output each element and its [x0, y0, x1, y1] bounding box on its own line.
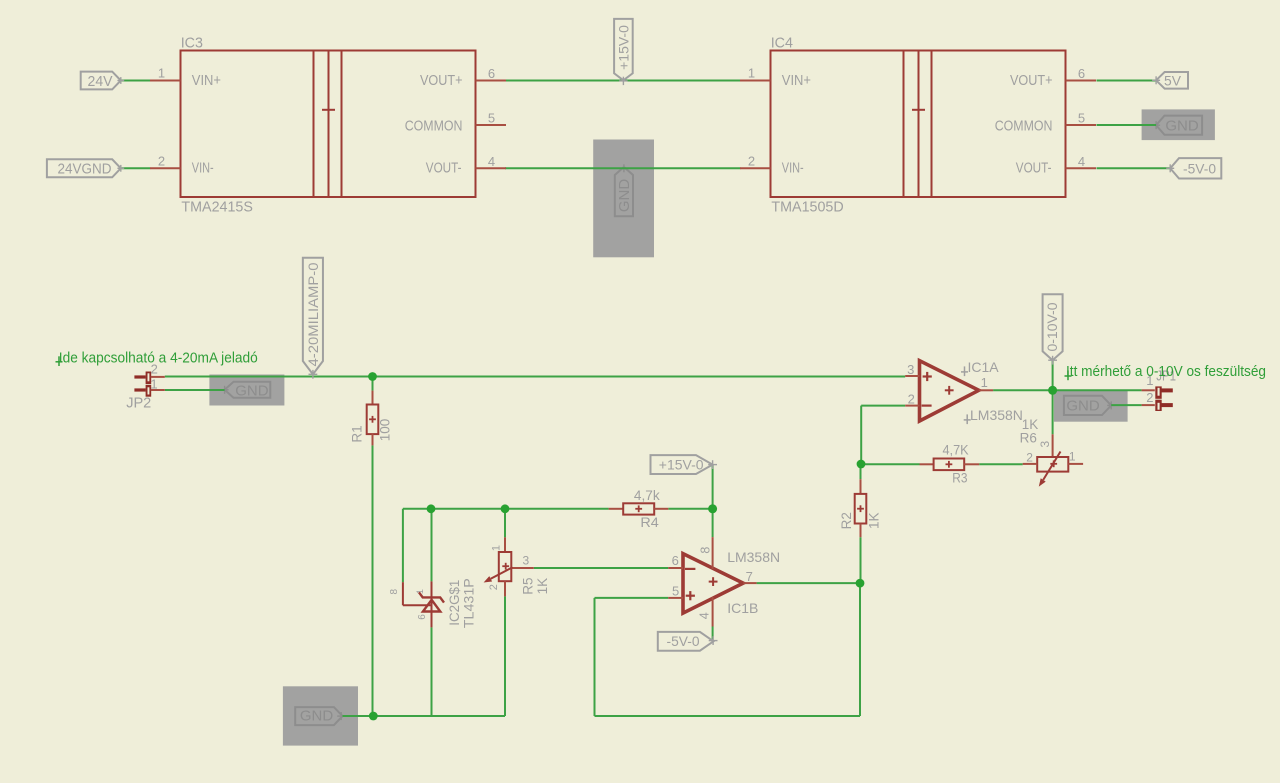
- svg-text:VOUT-: VOUT-: [426, 160, 462, 176]
- svg-text:R1: R1: [349, 425, 364, 442]
- svg-text:GND: GND: [1066, 398, 1100, 415]
- svg-text:TMA2415S: TMA2415S: [181, 199, 253, 215]
- svg-text:3: 3: [1038, 441, 1052, 448]
- svg-text:24VGND: 24VGND: [58, 162, 112, 178]
- svg-text:100: 100: [378, 419, 393, 442]
- svg-text:4: 4: [698, 612, 712, 619]
- svg-text:Ide kapcsolható a 4-20mA jelad: Ide kapcsolható a 4-20mA jeladó: [59, 351, 258, 367]
- svg-text:2: 2: [158, 153, 165, 168]
- svg-text:5V: 5V: [1164, 72, 1182, 88]
- svg-text:VOUT+: VOUT+: [1010, 73, 1053, 89]
- svg-text:+15V-0: +15V-0: [659, 457, 704, 473]
- svg-text:IC1B: IC1B: [727, 600, 758, 616]
- svg-text:TL431P: TL431P: [460, 578, 476, 628]
- svg-text:VOUT+: VOUT+: [420, 73, 463, 89]
- svg-text:1K: 1K: [535, 578, 550, 595]
- svg-text:R3: R3: [952, 470, 967, 485]
- svg-text:2: 2: [488, 584, 500, 590]
- svg-text:8: 8: [699, 547, 713, 554]
- svg-text:JP2: JP2: [126, 395, 151, 411]
- svg-text:8: 8: [389, 588, 400, 594]
- svg-text:1: 1: [1069, 450, 1076, 464]
- svg-text:6: 6: [417, 614, 428, 620]
- svg-text:R4: R4: [640, 515, 659, 530]
- svg-text:5: 5: [488, 111, 495, 126]
- svg-text:+15V-0: +15V-0: [615, 25, 631, 70]
- svg-text:0-10V-0: 0-10V-0: [1044, 302, 1060, 351]
- svg-text:COMMON: COMMON: [405, 118, 463, 134]
- svg-text:3: 3: [523, 554, 530, 568]
- svg-text:1: 1: [158, 66, 165, 81]
- svg-text:1: 1: [748, 66, 755, 81]
- svg-text:-5V-0: -5V-0: [667, 633, 700, 649]
- svg-text:2: 2: [1026, 451, 1033, 465]
- svg-text:IC4: IC4: [771, 36, 793, 52]
- svg-text:GND: GND: [616, 179, 633, 213]
- svg-text:VOUT-: VOUT-: [1016, 160, 1052, 176]
- svg-text:4,7K: 4,7K: [943, 443, 969, 458]
- svg-text:TMA1505D: TMA1505D: [771, 199, 843, 215]
- svg-text:2: 2: [1146, 390, 1153, 405]
- svg-text:IC1A: IC1A: [968, 359, 1000, 375]
- svg-text:Itt mérhető a 0-10V os feszült: Itt mérhető a 0-10V os feszültség: [1066, 364, 1266, 380]
- svg-text:-5V-0: -5V-0: [1183, 160, 1216, 176]
- svg-text:1: 1: [415, 589, 425, 594]
- svg-text:4: 4: [488, 154, 495, 169]
- svg-text:6: 6: [1078, 66, 1085, 81]
- svg-text:1: 1: [150, 377, 157, 392]
- svg-text:VIN+: VIN+: [782, 73, 811, 89]
- svg-text:6: 6: [672, 553, 679, 568]
- svg-text:4,7k: 4,7k: [634, 488, 660, 503]
- svg-text:LM358N: LM358N: [727, 549, 780, 565]
- svg-text:7: 7: [746, 569, 753, 584]
- svg-text:4-20MILIAMP-0: 4-20MILIAMP-0: [305, 262, 321, 366]
- svg-text:2: 2: [748, 153, 755, 168]
- svg-text:GND: GND: [300, 708, 334, 725]
- svg-text:VIN-: VIN-: [782, 160, 804, 176]
- svg-text:1K: 1K: [867, 512, 882, 529]
- svg-text:1: 1: [491, 545, 503, 551]
- svg-text:4: 4: [1078, 154, 1085, 169]
- svg-text:24V: 24V: [88, 74, 113, 90]
- svg-text:R5: R5: [521, 577, 536, 594]
- svg-text:LM358N: LM358N: [970, 407, 1023, 423]
- svg-text:GND: GND: [235, 382, 269, 399]
- svg-text:6: 6: [488, 66, 495, 81]
- svg-text:IC3: IC3: [181, 36, 203, 52]
- svg-text:5: 5: [1078, 111, 1085, 126]
- svg-text:2: 2: [908, 392, 915, 407]
- svg-text:R6: R6: [1020, 430, 1037, 445]
- svg-text:5: 5: [672, 584, 679, 599]
- svg-text:VIN-: VIN-: [192, 160, 214, 176]
- svg-text:GND: GND: [1165, 118, 1199, 135]
- svg-text:1: 1: [981, 375, 988, 390]
- svg-text:VIN+: VIN+: [192, 73, 221, 89]
- svg-text:COMMON: COMMON: [995, 118, 1053, 134]
- svg-text:R2: R2: [839, 512, 854, 529]
- svg-text:3: 3: [907, 362, 914, 377]
